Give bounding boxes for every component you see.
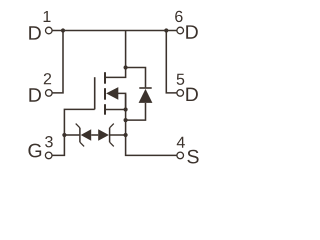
label D1 (D) — [29, 26, 41, 39]
junction diode bottom — [124, 118, 128, 122]
junction top-left — [61, 28, 65, 32]
label D6 (D) — [186, 25, 198, 38]
junction drain/diode — [124, 65, 128, 69]
source stub — [106, 109, 126, 111]
body arrow — [106, 87, 126, 109]
pin 4 terminal — [177, 152, 184, 159]
wire source vertical to pin4 — [126, 94, 177, 155]
channel segment drain — [104, 72, 106, 84]
junction gate/zener — [62, 133, 66, 137]
pin 3 terminal — [45, 152, 52, 159]
wire pin5 to top bus — [166, 31, 176, 93]
pin 2 terminal — [46, 90, 53, 97]
pin 5 terminal — [177, 90, 184, 97]
zener Z2 (source side, cathode right) — [98, 124, 114, 147]
label D2 (D) — [29, 88, 41, 101]
label n5 (5) — [177, 74, 185, 85]
label n2 (2) — [44, 73, 51, 84]
channel segment source — [104, 104, 106, 115]
label n3 (3) — [45, 136, 53, 147]
label G (G) — [28, 144, 41, 158]
transistor Q1 N-channel MOSFET — [95, 72, 126, 115]
junction zener right — [124, 133, 128, 137]
wire drain vertical and drain stub — [106, 31, 126, 78]
wire right zener to source — [110, 134, 126, 136]
label D5 (D) — [186, 88, 198, 101]
wire gate lead — [52, 109, 94, 155]
label S (S) — [187, 150, 198, 164]
wire gate to zener branch — [64, 134, 79, 136]
wire top bus D — [53, 30, 177, 32]
wire body-diode bottom branch — [126, 103, 146, 120]
diode D1 body diode — [139, 88, 153, 103]
junction source stub — [124, 107, 128, 111]
wire pin2 to top bus — [52, 31, 63, 93]
junction top-right — [164, 28, 168, 32]
wire between zeners — [91, 134, 98, 136]
zener Z1 (gate side, cathode left) — [76, 124, 92, 147]
label n4 (4) — [177, 137, 185, 148]
label n1 (1) — [44, 11, 51, 22]
wire body-diode top branch — [126, 68, 146, 88]
pin 1 terminal — [46, 27, 53, 34]
pin 6 terminal — [177, 27, 184, 34]
label n6 (6) — [175, 11, 182, 22]
channel segment body — [104, 88, 106, 100]
gate bar — [94, 77, 96, 109]
